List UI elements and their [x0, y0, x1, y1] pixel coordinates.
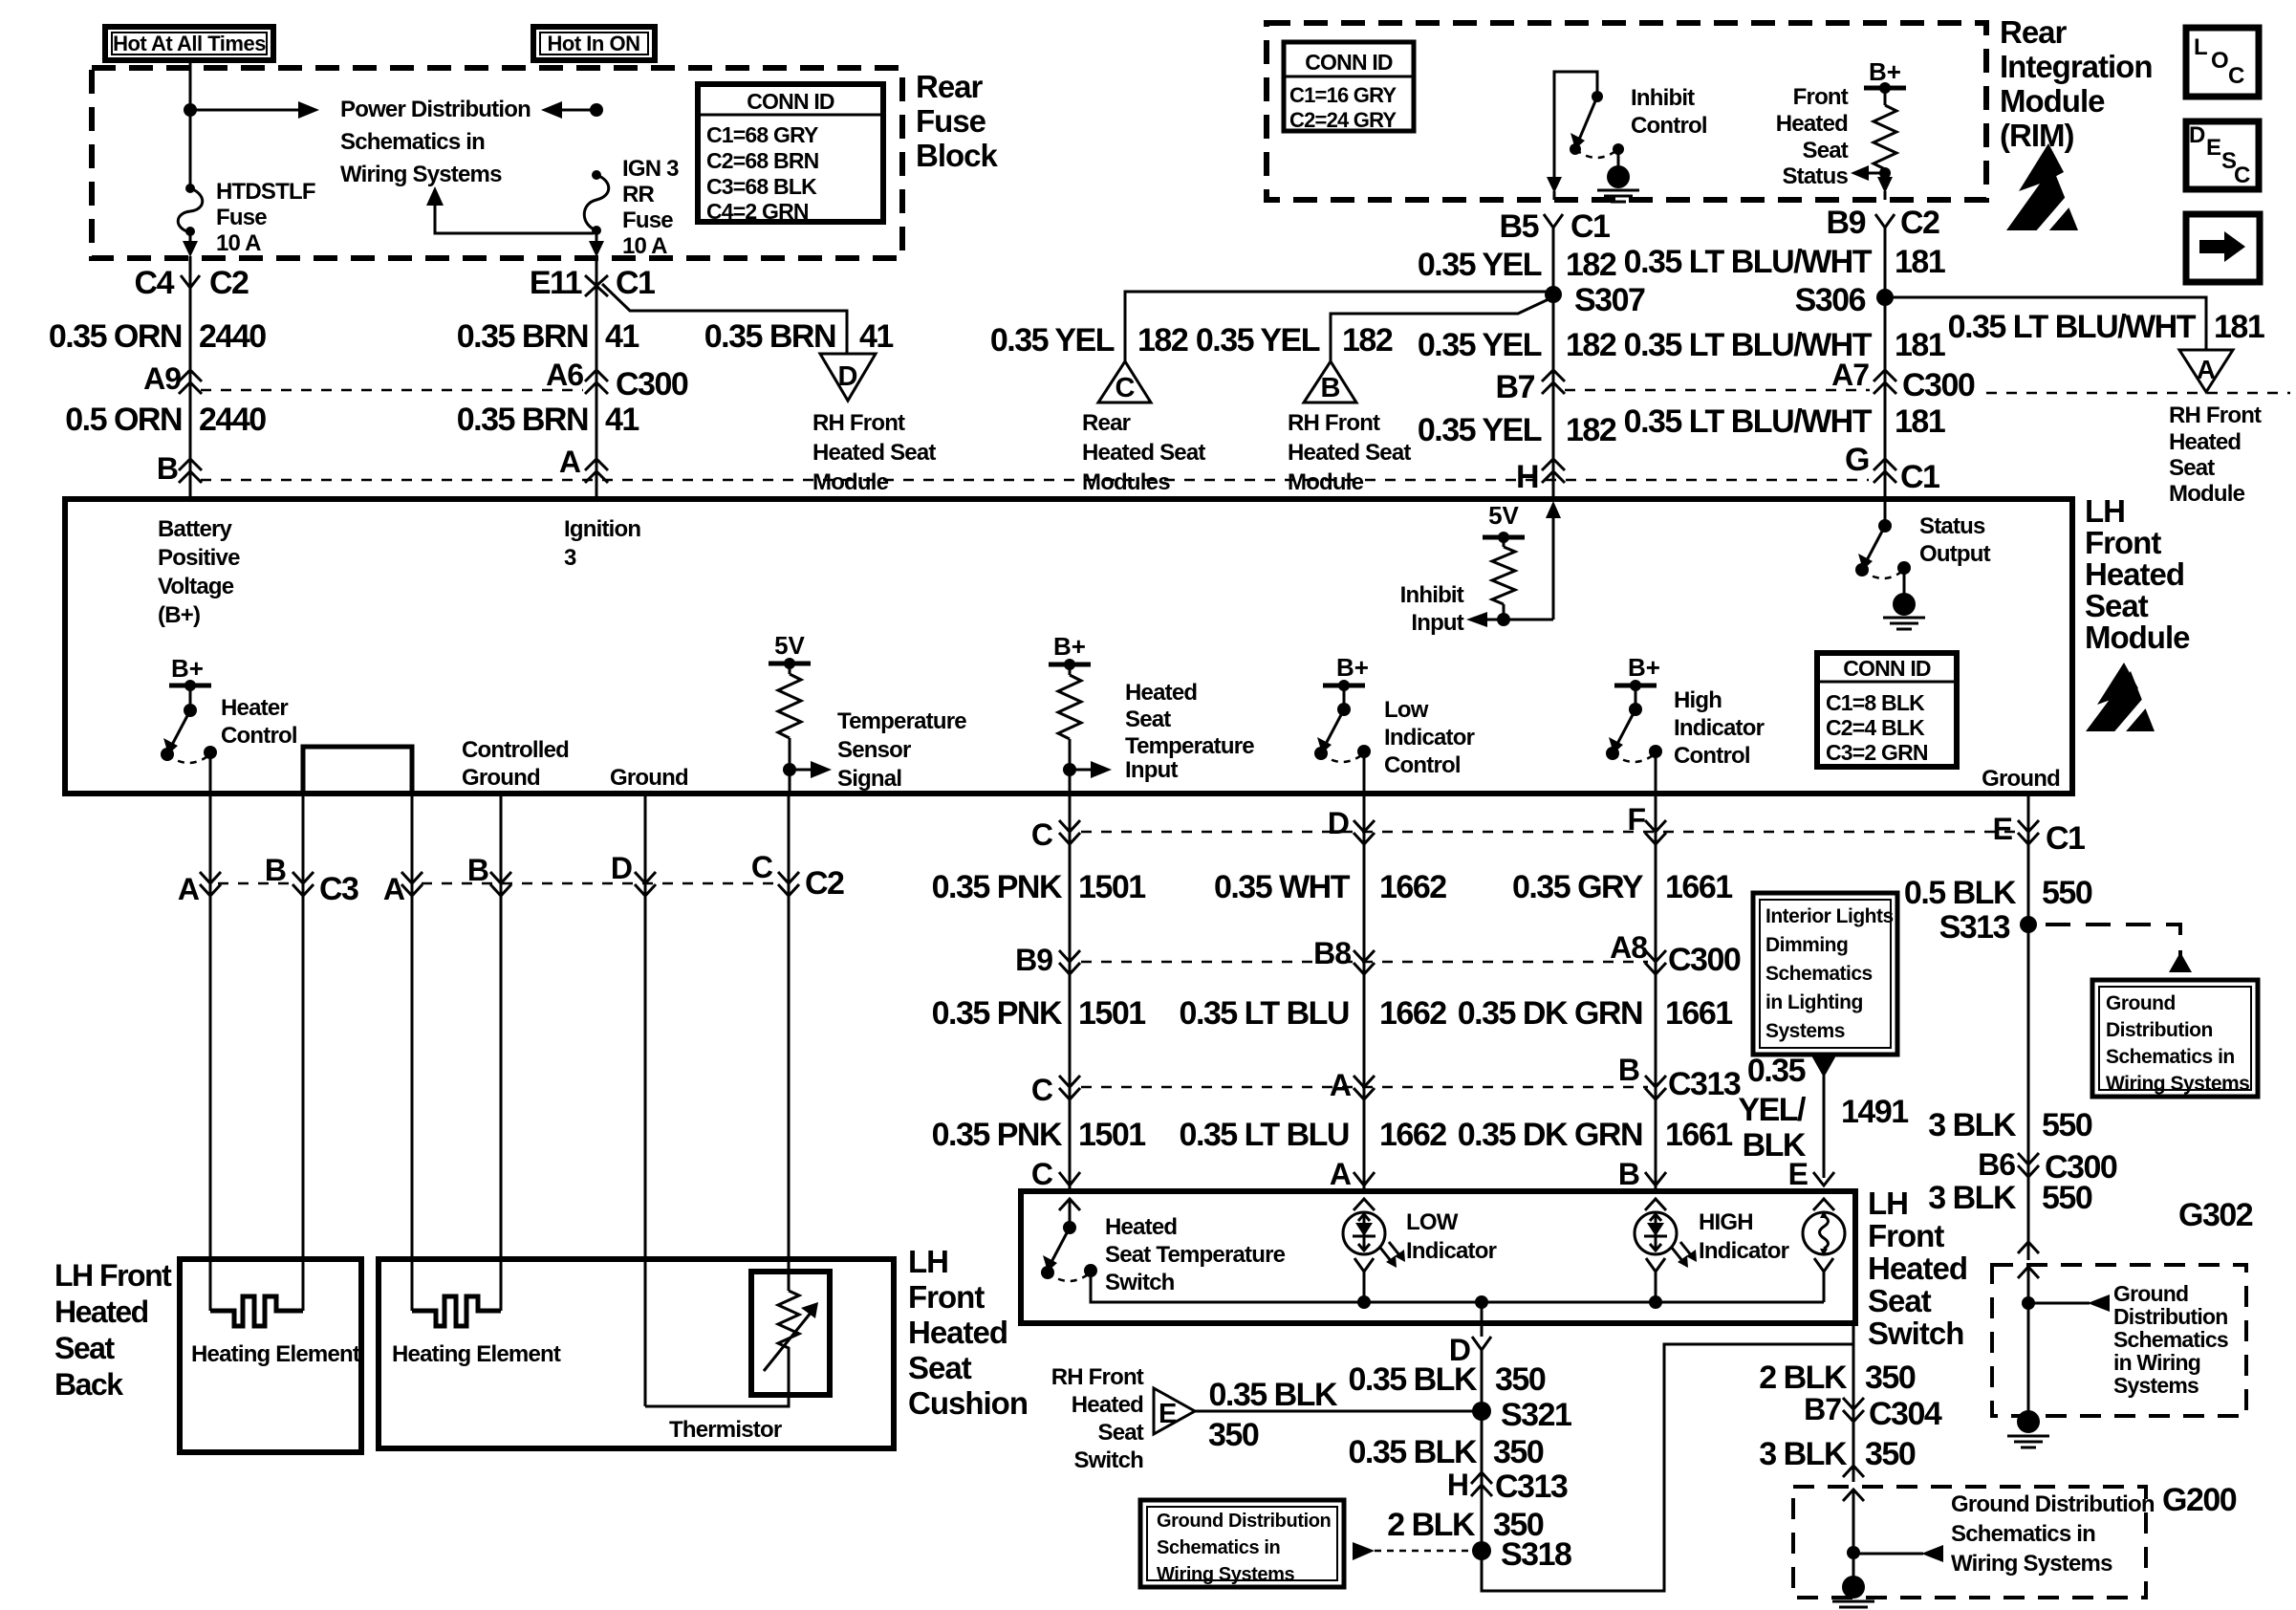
- wire arrow from Hot In ON to Power Distribution: [541, 101, 596, 119]
- label Low Indicator Control: [1384, 697, 1475, 778]
- svg-text:LOW: LOW: [1406, 1209, 1459, 1235]
- svg-text:Heated Seat: Heated Seat: [1288, 440, 1411, 466]
- svg-text:182: 182: [1137, 322, 1188, 359]
- svg-text:C4=2 GRN: C4=2 GRN: [706, 199, 809, 224]
- svg-text:Thermistor: Thermistor: [669, 1417, 782, 1443]
- connector A7 C300 chevrons on w6: [1831, 358, 1975, 403]
- svg-text:B9: B9: [1015, 943, 1052, 977]
- label Inhibit Control: [1631, 85, 1707, 139]
- switch Status Output: [1855, 499, 1925, 629]
- label Rear Heated Seat Modules: [1082, 410, 1205, 495]
- connector A chevrons c313: [1330, 1068, 1375, 1102]
- svg-text:B+: B+: [1628, 653, 1660, 682]
- svg-text:C: C: [751, 850, 773, 884]
- module box LH Front Heated Seat Module: [65, 499, 2072, 794]
- svg-text:E: E: [2206, 135, 2221, 161]
- connector D chevrons ground: [611, 851, 656, 896]
- svg-text:Indicator: Indicator: [1674, 715, 1765, 741]
- chevron into box lamp: [1813, 1199, 1834, 1210]
- wire w1 fuse to module: [183, 231, 198, 499]
- svg-text:Schematics in: Schematics in: [2106, 1046, 2235, 1068]
- svg-text:C2=24 GRY: C2=24 GRY: [1289, 108, 1397, 132]
- svg-text:C1=8 BLK: C1=8 BLK: [1826, 690, 1925, 715]
- svg-text:S313: S313: [1939, 909, 2010, 946]
- svg-text:182: 182: [1566, 412, 1616, 448]
- node bus junction high: [1649, 1295, 1662, 1309]
- label 0.35 LT BLU 1662 row2: [1180, 995, 1447, 1032]
- label Rear Fuse Block: [916, 69, 999, 173]
- svg-text:E: E: [1159, 1399, 1177, 1429]
- wire w2 fuse to module: [589, 230, 604, 499]
- dashed connector line C300 mid: [1081, 961, 1648, 964]
- connector E11 X C1 on w2: [530, 265, 655, 301]
- dashed connector line C1 module: [201, 479, 1869, 482]
- box heating element seat back: [180, 1259, 361, 1452]
- svg-text:Back: Back: [54, 1367, 123, 1402]
- wire w5 yellow from RIM: [1500, 208, 1611, 499]
- svg-text:1661: 1661: [1665, 869, 1732, 905]
- dashed box G200: [1793, 1482, 2237, 1598]
- svg-text:E11: E11: [530, 265, 582, 301]
- svg-text:C3: C3: [319, 871, 358, 907]
- svg-text:1662: 1662: [1379, 995, 1446, 1032]
- svg-text:Front: Front: [1793, 84, 1849, 110]
- svg-text:A: A: [1330, 1157, 1352, 1191]
- svg-text:G: G: [1845, 442, 1869, 478]
- label 0.35 LT BLU/WHT 181 mid: [1624, 327, 1945, 363]
- svg-text:C2: C2: [1900, 205, 1939, 241]
- svg-text:B: B: [467, 853, 488, 887]
- svg-text:C: C: [2228, 63, 2244, 89]
- resistor Front Heated Seat Status in RIM: [1851, 57, 1906, 200]
- svg-text:Control: Control: [1674, 743, 1750, 769]
- label 0.35 LT BLU/WHT 181 top: [1624, 244, 1945, 280]
- svg-text:B5: B5: [1500, 208, 1539, 245]
- box heating element cushion: [379, 1259, 894, 1448]
- svg-text:Inhibit: Inhibit: [1631, 85, 1695, 111]
- label 0.35 YEL 182 at B: [1196, 322, 1393, 359]
- svg-text:Block: Block: [916, 138, 999, 173]
- connector A chevrons cushion: [383, 872, 422, 906]
- svg-text:C: C: [2234, 163, 2250, 188]
- connector C pin temp switch: [1031, 1157, 1080, 1191]
- label Heated Seat Temperature Switch: [1105, 1214, 1286, 1295]
- svg-text:HIGH: HIGH: [1699, 1209, 1753, 1235]
- svg-text:0.35 LT BLU/WHT: 0.35 LT BLU/WHT: [1624, 403, 1873, 440]
- svg-text:0.35 PNK: 0.35 PNK: [932, 995, 1063, 1032]
- connector A8 C300 chevrons: [1610, 930, 1741, 978]
- svg-text:Indicator: Indicator: [1384, 725, 1475, 751]
- triangle A off-page connector: [2179, 350, 2233, 392]
- wire pin A cushion feed: [411, 794, 414, 1311]
- label 0.5 BLK 550: [1904, 875, 2092, 911]
- svg-text:Distribution: Distribution: [2106, 1019, 2213, 1041]
- svg-text:Modules: Modules: [1082, 469, 1170, 495]
- label 0.35 PNK 1501 row3: [932, 1117, 1146, 1153]
- label RH Front Heated Seat Module under D: [812, 410, 936, 495]
- svg-text:550: 550: [2042, 1107, 2092, 1143]
- svg-text:C2: C2: [805, 865, 844, 902]
- svg-text:Front: Front: [2085, 525, 2161, 560]
- svg-text:0.35 YEL: 0.35 YEL: [1418, 327, 1542, 363]
- svg-text:Power Distribution: Power Distribution: [340, 97, 531, 122]
- svg-text:S321: S321: [1501, 1397, 1571, 1433]
- dashed connector line C3: [218, 882, 294, 885]
- label 0.35 YEL 182 top: [1418, 247, 1616, 283]
- svg-text:0.35 YEL: 0.35 YEL: [990, 322, 1115, 359]
- svg-text:C300: C300: [1902, 367, 1975, 403]
- svg-text:C: C: [1031, 1073, 1053, 1107]
- ESD symbol module: [2086, 663, 2155, 737]
- svg-text:Heated: Heated: [1125, 680, 1197, 706]
- svg-text:B6: B6: [1978, 1147, 2015, 1182]
- svg-text:Schematics in: Schematics in: [1951, 1521, 2095, 1547]
- wire thermistor bottom to pin D: [645, 1358, 789, 1406]
- node S306: [1795, 282, 1894, 318]
- label 0.35 LT BLU 1662 row3: [1180, 1117, 1447, 1153]
- dashed arrow box to S318: [1353, 1542, 1472, 1560]
- ground wire in G200: [1832, 1490, 1943, 1610]
- label 0.35 DK GRN 1661 row2: [1458, 995, 1732, 1032]
- chevron into box high led: [1645, 1199, 1666, 1210]
- svg-text:C1: C1: [1900, 459, 1939, 495]
- svg-text:C4: C4: [135, 265, 175, 301]
- reference box Ground Distribution bottom: [1140, 1500, 1344, 1587]
- svg-text:Indicator: Indicator: [1699, 1238, 1789, 1264]
- svg-text:Interior Lights: Interior Lights: [1765, 905, 1894, 927]
- triangle B off-page connector: [1304, 361, 1356, 403]
- connector A chevrons on w2: [559, 445, 608, 483]
- svg-text:C3=2 GRN: C3=2 GRN: [1826, 740, 1928, 765]
- node bus junction low: [1357, 1295, 1371, 1309]
- reference box arrow: [2186, 214, 2260, 282]
- svg-text:Seat: Seat: [1098, 1420, 1144, 1446]
- svg-text:E: E: [1788, 1157, 1809, 1191]
- node bus junction D drop: [1475, 1295, 1488, 1309]
- label 2 BLK 350 s318: [1387, 1507, 1544, 1543]
- chevron into G200: [1843, 1466, 1864, 1501]
- label Temperature Sensor Signal: [837, 708, 966, 792]
- svg-text:C: C: [1031, 817, 1053, 852]
- chevron into box temp switch: [1059, 1199, 1080, 1210]
- svg-text:Control: Control: [1631, 113, 1707, 139]
- thermistor box: [751, 1272, 830, 1395]
- triangle C off-page connector: [1098, 361, 1151, 403]
- node S307: [1545, 282, 1645, 318]
- dashed connector line C300 left: [201, 389, 583, 392]
- node battery feed junction: [184, 103, 197, 117]
- wire w6 lt blu/wht from RIM: [1827, 205, 1940, 499]
- heating element symbol cushion: [412, 1296, 501, 1326]
- svg-text:Fuse: Fuse: [216, 205, 267, 230]
- svg-text:0.35 BRN: 0.35 BRN: [457, 318, 588, 355]
- dashed box G302: [1992, 1197, 2253, 1416]
- wire pin D ground: [644, 794, 647, 1406]
- svg-text:Heated: Heated: [1776, 111, 1848, 137]
- wire power distribution branch with up arrow: [426, 186, 594, 233]
- svg-text:181: 181: [1895, 327, 1945, 363]
- svg-text:A: A: [178, 872, 200, 906]
- wire branch S307 to rear heated seat modules C: [1125, 292, 1553, 361]
- connector B7 chevrons on w5: [1496, 369, 1565, 405]
- connector B9 chevrons: [1015, 943, 1080, 977]
- svg-text:0.35 BLK: 0.35 BLK: [1349, 1434, 1478, 1470]
- connector B8 chevrons: [1313, 936, 1375, 974]
- label IGN 3 RR Fuse 10 A: [622, 156, 679, 259]
- label 0.35 ORN 2440: [49, 318, 266, 355]
- svg-text:B: B: [1321, 373, 1341, 403]
- svg-text:550: 550: [2042, 875, 2092, 911]
- wire arrow to Power Distribution: [190, 101, 319, 119]
- label 0.5 ORN 2440: [65, 402, 266, 438]
- label Front Heated Seat Status: [1776, 84, 1849, 189]
- svg-text:Cushion: Cushion: [908, 1385, 1028, 1421]
- svg-text:0.35 YEL: 0.35 YEL: [1418, 412, 1542, 448]
- svg-text:Front: Front: [908, 1279, 985, 1315]
- svg-text:A: A: [1330, 1068, 1352, 1102]
- label Heater Control: [221, 695, 297, 749]
- svg-text:RH Front: RH Front: [2169, 402, 2262, 428]
- svg-text:Positive: Positive: [158, 545, 240, 571]
- svg-text:182: 182: [1566, 327, 1616, 363]
- svg-text:C2=68 BRN: C2=68 BRN: [706, 148, 819, 173]
- svg-text:0.35 DK GRN: 0.35 DK GRN: [1458, 995, 1642, 1032]
- label RH Front Heated Seat Switch: [1051, 1364, 1144, 1473]
- svg-text:Heated: Heated: [1868, 1251, 1967, 1286]
- wire battery feed w1 upper: [189, 60, 192, 187]
- label 3 BLK 350 w7: [1759, 1436, 1916, 1472]
- connector D chevrons: [1328, 806, 1375, 844]
- label Controlled Ground: [462, 737, 569, 791]
- svg-text:G302: G302: [2178, 1197, 2253, 1233]
- resistor Heated Seat Temperature Input: [1049, 632, 1112, 794]
- svg-text:in Lighting: in Lighting: [1765, 991, 1863, 1013]
- svg-text:1491: 1491: [1841, 1094, 1908, 1130]
- svg-text:H: H: [1516, 459, 1538, 495]
- svg-text:B+: B+: [1053, 632, 1086, 661]
- svg-text:5V: 5V: [1488, 501, 1519, 530]
- svg-text:LH: LH: [2085, 493, 2125, 529]
- svg-text:O: O: [2211, 48, 2229, 74]
- wire pin C thermistor: [788, 794, 791, 1291]
- svg-text:0.35 PNK: 0.35 PNK: [932, 1117, 1063, 1153]
- wire branch S307 to RH front heated seat module B: [1331, 299, 1549, 361]
- svg-text:550: 550: [2042, 1180, 2092, 1216]
- svg-text:YEL/: YEL/: [1738, 1092, 1807, 1128]
- svg-text:Ground Distribution: Ground Distribution: [1951, 1491, 2155, 1517]
- svg-text:Module: Module: [2000, 83, 2105, 119]
- svg-text:D: D: [838, 361, 858, 392]
- label 0.35 WHT 1662 row1: [1214, 869, 1446, 905]
- svg-text:H: H: [1447, 1468, 1468, 1502]
- svg-text:Heating Element: Heating Element: [392, 1341, 561, 1367]
- label HTDSTLF Fuse 10 A: [216, 179, 315, 256]
- dashed connector line C313: [1081, 1086, 1648, 1089]
- svg-text:Indicator: Indicator: [1406, 1238, 1497, 1264]
- CONN ID box rear fuse block: [698, 84, 883, 224]
- svg-text:B7: B7: [1804, 1392, 1841, 1426]
- label 2 BLK 350 w7: [1759, 1360, 1916, 1396]
- wire pin F high indicator column: [1655, 794, 1657, 1191]
- svg-text:0.35 BRN: 0.35 BRN: [457, 402, 588, 438]
- dashed box Rear Integration Module: [1267, 23, 1986, 200]
- svg-text:C1: C1: [1570, 208, 1610, 245]
- svg-text:181: 181: [1895, 403, 1945, 440]
- svg-text:Heater: Heater: [221, 695, 288, 721]
- svg-text:G200: G200: [2162, 1482, 2237, 1518]
- wire switch box ground w7: [1852, 1323, 1855, 1482]
- connector E pin lamp: [1788, 1157, 1834, 1191]
- svg-text:Ground: Ground: [610, 765, 688, 791]
- reference box LOC: [2186, 28, 2259, 97]
- connector E C1 chevrons: [1993, 812, 2085, 857]
- svg-text:1662: 1662: [1379, 869, 1446, 905]
- reference box Ground Distribution right: [2092, 980, 2258, 1097]
- svg-text:C: C: [1031, 1157, 1053, 1191]
- connector A pin low: [1330, 1157, 1375, 1191]
- svg-text:Temperature: Temperature: [837, 708, 966, 734]
- label 0.35 DK GRN 1661 row3: [1458, 1117, 1732, 1153]
- svg-text:A: A: [2197, 355, 2216, 384]
- svg-text:Wiring Systems: Wiring Systems: [2106, 1073, 2249, 1095]
- svg-text:10 A: 10 A: [216, 230, 261, 256]
- svg-text:2 BLK: 2 BLK: [1387, 1507, 1476, 1543]
- svg-text:1501: 1501: [1078, 869, 1145, 905]
- svg-text:A: A: [559, 445, 581, 479]
- svg-text:Seat Temperature: Seat Temperature: [1105, 1242, 1286, 1268]
- triangle E RH front heated seat switch: [1154, 1388, 1195, 1434]
- svg-text:B8: B8: [1313, 936, 1351, 970]
- label Heated Seat Temperature Input: [1125, 680, 1254, 783]
- connector B C3 chevrons: [265, 853, 358, 907]
- svg-text:(RIM): (RIM): [2000, 118, 2073, 153]
- svg-text:C1: C1: [616, 265, 655, 301]
- connector B pin high: [1618, 1157, 1666, 1191]
- svg-text:Seat: Seat: [54, 1331, 115, 1365]
- switch High Indicator Control: [1606, 653, 1662, 794]
- svg-text:0.35 PNK: 0.35 PNK: [932, 869, 1063, 905]
- svg-text:Inhibit: Inhibit: [1400, 582, 1464, 608]
- svg-text:(B+): (B+): [158, 602, 200, 628]
- label High Indicator Control: [1674, 687, 1765, 769]
- svg-text:3 BLK: 3 BLK: [1759, 1436, 1848, 1472]
- svg-text:2 BLK: 2 BLK: [1759, 1360, 1848, 1396]
- wire branch S306 to triangle A: [1885, 297, 2206, 350]
- svg-text:IGN 3: IGN 3: [622, 156, 679, 182]
- label RH Front Heated Seat Module under B: [1288, 410, 1411, 495]
- dashed connector line C300 far right: [1986, 392, 2290, 395]
- svg-text:Heated: Heated: [1105, 1214, 1177, 1240]
- svg-text:Systems: Systems: [1765, 1020, 1845, 1042]
- svg-text:182: 182: [1342, 322, 1393, 359]
- label 0.35 GRY 1661 row1: [1512, 869, 1732, 905]
- svg-text:B9: B9: [1827, 205, 1866, 241]
- connector C C2 chevrons thermistor: [751, 850, 844, 902]
- svg-text:41: 41: [605, 402, 639, 438]
- svg-text:41: 41: [859, 318, 893, 355]
- connector B chevrons on w1: [157, 451, 202, 486]
- switch Inhibit Control in RIM: [1547, 72, 1624, 200]
- svg-text:C3=68 BLK: C3=68 BLK: [706, 174, 817, 199]
- node ignition feed junction: [590, 103, 603, 117]
- svg-text:E: E: [1993, 812, 2013, 846]
- LED HIGH indicator: [1635, 1212, 1697, 1302]
- svg-text:0.35 DK GRN: 0.35 DK GRN: [1458, 1117, 1642, 1153]
- reference box DESC: [2186, 121, 2259, 189]
- label Ignition 3: [564, 516, 640, 571]
- label 0.35 LT BLU/WHT 181 branch: [1948, 309, 2264, 345]
- svg-text:Battery: Battery: [158, 516, 233, 542]
- connector A chevrons seat back: [178, 872, 221, 906]
- label LH Front Heated Seat Switch: [1868, 1186, 1967, 1351]
- label Inhibit Input: [1400, 582, 1464, 636]
- svg-text:182: 182: [1566, 247, 1616, 283]
- svg-text:Heated Seat: Heated Seat: [812, 440, 936, 466]
- label Battery Positive Voltage (B+): [158, 516, 240, 628]
- svg-text:2440: 2440: [199, 318, 266, 355]
- svg-text:350: 350: [1208, 1417, 1259, 1453]
- svg-text:350: 350: [1495, 1361, 1546, 1398]
- svg-text:Wiring Systems: Wiring Systems: [1157, 1564, 1295, 1585]
- svg-text:Heated: Heated: [2169, 429, 2241, 455]
- label Rear Integration Module (RIM): [2000, 14, 2153, 153]
- svg-text:Heated: Heated: [2085, 556, 2184, 592]
- label box Hot In ON: [533, 27, 655, 60]
- connector C chevrons c313: [1031, 1073, 1080, 1107]
- label 0.35 BRN 41 branch: [704, 318, 894, 355]
- chevron into G302: [2018, 1242, 2039, 1278]
- svg-text:Front: Front: [1868, 1218, 1944, 1253]
- svg-text:1501: 1501: [1078, 995, 1145, 1032]
- label LH Front Heated Seat Cushion: [908, 1244, 1028, 1421]
- connector A9 C300 chevrons: [143, 361, 202, 396]
- fuse HTDSTLF: [178, 184, 203, 236]
- svg-text:0.35 YEL: 0.35 YEL: [1196, 322, 1320, 359]
- connector B6 C300 chevrons: [1978, 1147, 2117, 1186]
- svg-text:B: B: [265, 853, 286, 887]
- svg-text:0.35: 0.35: [1747, 1053, 1806, 1089]
- svg-text:Seat: Seat: [1803, 138, 1849, 163]
- dashed connector line C2: [422, 882, 781, 885]
- resistor Temperature Sensor: [769, 631, 832, 794]
- svg-text:Seat: Seat: [908, 1350, 972, 1385]
- label 3 BLK 550 upper: [1928, 1107, 2092, 1143]
- label 0.35 PNK 1501 row2: [932, 995, 1146, 1032]
- svg-text:Switch: Switch: [1105, 1270, 1175, 1295]
- label 0.35 BLK 350 on E wire: [1208, 1377, 1338, 1453]
- heating element symbol seat back: [210, 1296, 303, 1326]
- svg-text:Signal: Signal: [837, 766, 901, 792]
- svg-text:Status: Status: [1919, 513, 1985, 539]
- svg-text:S306: S306: [1795, 282, 1866, 318]
- svg-text:C1=68 GRY: C1=68 GRY: [706, 122, 818, 147]
- connector H chevrons on w5: [1516, 459, 1565, 495]
- svg-text:B7: B7: [1496, 369, 1535, 405]
- connector A6 C300 chevrons: [546, 358, 688, 402]
- svg-text:Output: Output: [1919, 541, 1991, 567]
- svg-text:0.35 GRY: 0.35 GRY: [1512, 869, 1644, 905]
- label Ground Distribution G302: [2113, 1281, 2228, 1398]
- svg-text:1661: 1661: [1665, 1117, 1732, 1153]
- wire pin C temp switch column: [1069, 794, 1072, 1191]
- svg-text:HTDSTLF: HTDSTLF: [216, 179, 315, 205]
- switch Low Indicator Control: [1314, 653, 1371, 794]
- svg-text:C: C: [1116, 373, 1136, 403]
- svg-text:CONN ID: CONN ID: [1305, 50, 1393, 75]
- thermistor symbol: [764, 1291, 818, 1371]
- svg-text:0.5 BLK: 0.5 BLK: [1904, 875, 2017, 911]
- label RH Front Heated Seat Module under A: [2169, 402, 2262, 507]
